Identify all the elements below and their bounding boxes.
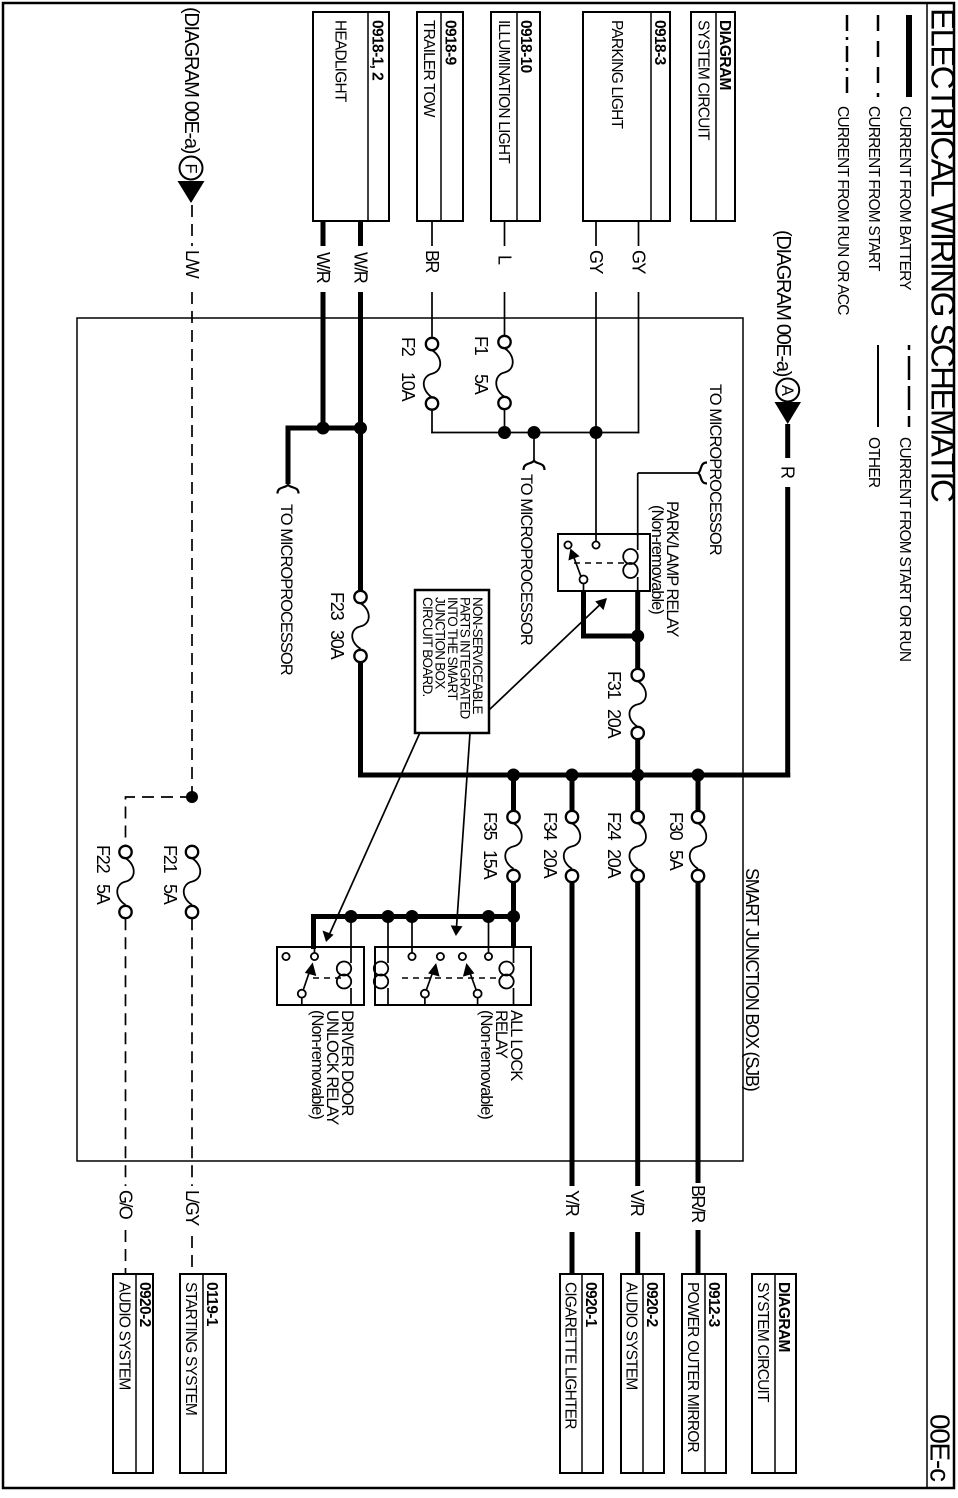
svg-text:0119-1: 0119-1 [203,1282,220,1327]
stub to microprocessor 2 [533,433,535,461]
svg-text:L/GY: L/GY [182,1190,202,1226]
fuse F2 output to junction line [431,410,433,434]
driver relay switch arm arrow [303,971,310,990]
svg-text:SMART JUNCTION BOX (SJB): SMART JUNCTION BOX (SJB) [742,868,762,1091]
svg-text:L: L [495,255,515,265]
junction dot W/R 1 [354,422,367,435]
svg-text:F21: F21 [160,845,180,874]
svg-text:F23: F23 [327,592,347,621]
junction dot GY crossing [590,426,603,439]
all lock right coil [499,962,513,976]
DRIVER DOOR UNLOCK RELAY box [277,947,364,1005]
svg-text:W/R: W/R [313,252,333,284]
fuse F21 [186,846,198,858]
driver relay common pin [311,953,318,960]
svg-text:0920-2: 0920-2 [136,1282,153,1327]
all lock left coil drop from bus2 [387,917,389,964]
svg-text:ELECTRICAL WIRING SCHEMATIC: ELECTRICAL WIRING SCHEMATIC [925,8,958,502]
wire GY (parking light 2) [638,221,640,246]
title separator line [926,3,928,1488]
driver relay dashed link [309,977,341,979]
svg-text:(Non-removable): (Non-removable) [308,1010,326,1119]
box 0918-9 TRAILER TOW [417,12,463,221]
wire to microprocessor 1 thick [286,428,291,484]
svg-text:TRAILER TOW: TRAILER TOW [420,20,437,118]
legend line CURRENT FROM START [877,15,880,97]
wire W/R (headlight 1) thick [358,221,363,246]
all lock switch 2 circle [474,990,482,998]
svg-text:Y/R: Y/R [562,1190,582,1217]
fuse F24 with stub [635,775,640,811]
svg-text:5A: 5A [471,374,491,395]
svg-text:SYSTEM CIRCUIT: SYSTEM CIRCUIT [695,20,712,141]
svg-text:F35: F35 [480,812,500,841]
box 0918-1, 2 HEADLIGHT [313,12,389,221]
all lock switch 1 arm arrow [426,972,433,991]
all lock pin drop 1 [488,917,490,954]
junction dot relay outputs [631,630,644,643]
bus dot F24/F31 [631,769,644,782]
svg-text:5A: 5A [666,850,686,871]
hook to microprocessor 2 [524,461,545,471]
svg-text:DIAGRAM: DIAGRAM [775,1282,792,1352]
svg-text:30A: 30A [327,630,347,660]
relay coil [637,534,639,550]
bus2 dot all lock pin drop [482,910,495,923]
svg-text:TO MICROPROCESSOR: TO MICROPROCESSOR [706,384,724,556]
all lock switch 1 stub [424,998,426,1005]
bus2 dot F35 in [507,910,520,923]
svg-text:20A: 20A [604,709,624,739]
svg-text:GY: GY [586,250,606,274]
relay coil microprocessor wire [637,473,639,536]
junction dot microprocessor stub [528,426,541,439]
svg-text:TO MICROPROCESSOR: TO MICROPROCESSOR [277,504,295,676]
svg-text:(DIAGRAM 00E-a): (DIAGRAM 00E-a) [180,7,202,154]
all lock pin 1 [485,953,492,960]
junction line (vertical) [431,432,639,434]
svg-text:F: F [182,163,200,173]
svg-text:HEADLIGHT: HEADLIGHT [332,20,349,103]
bus dot F35 [507,769,520,782]
fuse F1 [498,336,510,348]
svg-text:F22: F22 [93,845,113,874]
svg-text:AUDIO SYSTEM: AUDIO SYSTEM [623,1282,640,1390]
svg-text:V/R: V/R [627,1190,647,1217]
legend line CURRENT FROM RUN OR ACC [846,15,849,97]
svg-text:5A: 5A [160,884,180,905]
svg-text:0920-1: 0920-1 [582,1282,599,1328]
svg-text:0912-3: 0912-3 [705,1282,722,1328]
box 0912-3 POWER OUTER MIRROR [682,1274,726,1473]
hook to microprocessor 1 [278,485,299,494]
W/R junction cross line [286,426,361,431]
bus2 dot driver coil drop [345,910,358,923]
svg-text:TO MICROPROCESSOR: TO MICROPROCESSOR [517,474,535,646]
legend line CURRENT FROM START OR RUN [908,345,911,427]
wire BR (trailer tow) [431,221,433,246]
fuse F22 [119,846,131,858]
svg-text:BR/R: BR/R [688,1185,708,1223]
svg-text:L/W: L/W [182,250,202,279]
box 0918-3 PARKING LIGHT [583,12,670,221]
all lock switch 1 circle [421,990,429,998]
svg-text:BR: BR [422,250,442,273]
bus2 dot all lock coil drop [382,910,395,923]
wire GY (parking light 1) to relay pin [595,221,597,246]
svg-text:(Non-removable): (Non-removable) [477,1010,495,1119]
fuse F23 output to bus [358,662,363,777]
driver relay NC pin [282,953,289,960]
relay coil output thick [635,591,640,670]
fuse F21 output dashed [191,918,193,1186]
legend line CURRENT FROM BATTERY [906,15,912,97]
driver relay coil drop from bus2 [350,917,352,964]
all lock dashed link [402,977,496,979]
fuse F35 with stub [511,775,516,811]
svg-text:CURRENT FROM START: CURRENT FROM START [865,106,882,272]
box 0119-1 STARTING SYSTEM [180,1274,226,1473]
NON-SERVICEABLE note box [415,590,489,733]
all lock pin 4 [408,953,415,960]
all lock switch 2 arm arrow [470,972,477,991]
relay switch output thick path [584,591,638,636]
ALL LOCK RELAY box [375,947,531,1005]
svg-text:F31: F31 [604,671,624,700]
svg-text:R: R [778,466,798,479]
svg-text:F1: F1 [471,336,491,356]
svg-text:CIRCUIT BOARD.: CIRCUIT BOARD. [420,597,435,697]
box 0920-2 AUDIO SYSTEM [621,1274,664,1473]
relay switch arm with arrowhead [574,557,581,577]
note arrow to park/lamp relay [489,604,601,711]
driver relay switch stub [301,998,303,1005]
svg-text:0918-1, 2: 0918-1, 2 [369,20,386,80]
svg-text:STARTING SYSTEM: STARTING SYSTEM [182,1282,199,1415]
svg-text:AUDIO SYSTEM: AUDIO SYSTEM [116,1282,133,1390]
svg-text:(Non-removable): (Non-removable) [648,505,666,614]
svg-text:10A: 10A [398,372,418,402]
junction dot W/R 2 [317,422,330,435]
node F arrow triangle [178,181,205,203]
thick entry to all lock right coil [511,917,516,949]
svg-text:PARKING LIGHT: PARKING LIGHT [608,20,625,129]
relay pin NC [564,541,571,548]
all lock pin drop 2 [411,917,413,954]
fuse F34 with stub [570,775,575,811]
svg-text:20A: 20A [540,849,560,879]
node A circle [776,379,799,402]
svg-text:F30: F30 [666,812,686,841]
junction dot F1 out [498,426,511,439]
all lock left coil [374,962,388,976]
svg-text:0918-3: 0918-3 [651,20,668,66]
fuse F31 [632,669,644,681]
svg-text:DIAGRAM: DIAGRAM [716,20,733,90]
svg-text:OTHER: OTHER [865,437,882,488]
svg-text:20A: 20A [604,849,624,879]
svg-text:(DIAGRAM 00E-a): (DIAGRAM 00E-a) [772,230,794,377]
fuse F1 output [504,409,506,433]
relay dashed link [573,562,624,564]
svg-text:CURRENT FROM START OR RUN: CURRENT FROM START OR RUN [896,437,913,661]
svg-text:F2: F2 [398,337,418,357]
svg-text:5A: 5A [93,884,113,905]
driver relay switch pin [298,990,306,998]
svg-text:G/O: G/O [116,1190,136,1220]
fuse F2 [426,338,438,350]
note arrow to driver door relay [329,733,420,935]
PARK/LAMP RELAY box [558,534,650,591]
svg-text:CURRENT FROM RUN OR ACC: CURRENT FROM RUN OR ACC [834,106,851,315]
all lock switch pin 2 [459,953,466,960]
fuse F23 [354,591,366,603]
svg-text:00E-c: 00E-c [925,1414,956,1482]
svg-text:0920-2: 0920-2 [643,1282,660,1327]
svg-text:ILLUMINATION LIGHT: ILLUMINATION LIGHT [495,20,512,164]
svg-text:F34: F34 [540,812,560,841]
box 0920-2 AUDIO SYSTEM (left) [113,1274,153,1473]
relay switch pin circle [580,576,588,584]
note arrow to all lock relay [456,733,470,929]
relay pin common (GY in) [592,541,599,548]
dashed branch to F22 [186,791,198,803]
driver relay coil [337,962,351,976]
box 0918-10 ILLUMINATION LIGHT [491,12,540,221]
svg-text:15A: 15A [480,850,500,880]
wire R thick [785,424,790,458]
svg-text:W/R: W/R [351,252,371,284]
node F circle [180,157,203,180]
legend line OTHER [877,345,879,427]
box DIAGRAM / SYSTEM CIRCUIT (top) [691,12,735,221]
main bus (battery) thick vertical [358,773,790,778]
svg-text:CIGARETTE LIGHTER: CIGARETTE LIGHTER [562,1282,579,1429]
wire L/W dashed from node F [191,205,193,246]
secondary bus thick vertical [314,917,514,950]
bus dot F34 [566,769,579,782]
box DIAGRAM / SYSTEM CIRCUIT (bottom) [752,1274,796,1473]
hook to microprocessor 3 [698,463,707,484]
svg-text:GY: GY [629,250,649,274]
box 0920-1 CIGARETTE LIGHTER [560,1274,603,1473]
all lock switch pin 3 [437,953,444,960]
fuse F31 output to bus [635,739,640,775]
svg-text:CURRENT FROM BATTERY: CURRENT FROM BATTERY [896,106,913,290]
svg-text:A: A [778,385,796,396]
wire L (illumination light) [504,221,506,246]
svg-text:0918-10: 0918-10 [517,20,534,73]
fuse F22 output dashed [125,918,127,1186]
node A arrow triangle [775,402,802,424]
bus2 dot all lock pin drop 2 [406,910,419,923]
fuse F30 with stub [696,775,701,811]
svg-text:SYSTEM CIRCUIT: SYSTEM CIRCUIT [754,1282,771,1403]
SMART JUNCTION BOX outline [77,318,743,1161]
bus dot F30 [692,769,705,782]
svg-text:POWER OUTER MIRROR: POWER OUTER MIRROR [684,1282,701,1452]
all lock switch 2 stub [477,998,479,1005]
relay switch output stub [583,584,585,592]
wire W/R (headlight 2) thick [321,221,326,246]
svg-text:F24: F24 [604,812,624,841]
svg-text:0918-9: 0918-9 [442,20,459,66]
driver relay pin stub [314,947,316,953]
